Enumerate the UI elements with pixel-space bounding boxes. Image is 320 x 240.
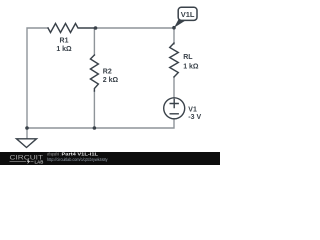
svg-text:1 kΩ: 1 kΩ	[183, 64, 199, 71]
svg-text:V1L: V1L	[181, 10, 195, 19]
svg-text:2 kΩ: 2 kΩ	[103, 77, 119, 84]
svg-text:V1: V1	[188, 107, 197, 114]
svg-text:-3 V: -3 V	[188, 114, 201, 121]
svg-text:Part4 V1L-I1L: Part4 V1L-I1L	[62, 152, 99, 157]
svg-text:LAB: LAB	[35, 159, 44, 164]
svg-text:ethapathii :: ethapathii :	[47, 152, 61, 157]
svg-text:R2: R2	[103, 69, 112, 76]
svg-text:RL: RL	[183, 54, 193, 61]
svg-text:1 kΩ: 1 kΩ	[56, 46, 72, 53]
svg-text:R1: R1	[60, 38, 69, 45]
svg-text:http://circuitlab.com/c/q3cbry: http://circuitlab.com/c/q3cbrywk4s8y	[47, 157, 108, 162]
